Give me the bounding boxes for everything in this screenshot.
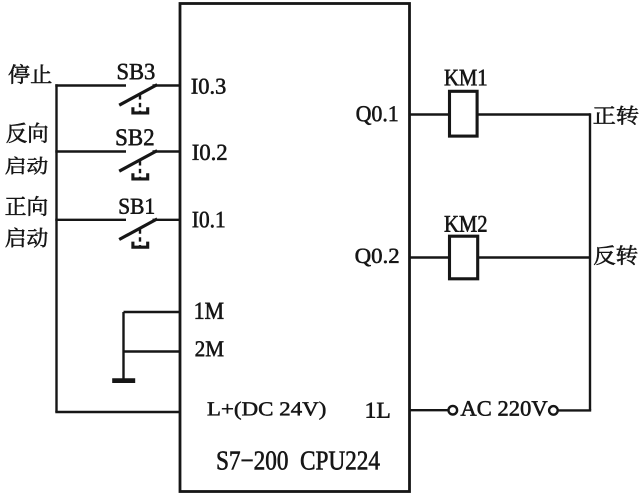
part label: S7-200 CPU224 bbox=[218, 451, 380, 469]
label: reverse (Chinese) line1 for SB2 bbox=[7, 123, 48, 143]
wire: KM1 coil to right bus bbox=[477, 113, 590, 115]
PLC controller U1 box (S7-200 CPU224) bbox=[180, 4, 410, 492]
label: start (Chinese) line2 for SB1 bbox=[6, 228, 48, 248]
designator: SB2 bbox=[117, 129, 154, 145]
designator: KM2 bbox=[445, 216, 487, 232]
pushbutton SB2 (reverse start, NO contact + actuator) bbox=[119, 151, 157, 179]
pushbutton SB3 (stop, NO contact + actuator) bbox=[119, 85, 157, 113]
pin label: 1L bbox=[367, 403, 390, 418]
net label: forward rotation (Chinese) bbox=[594, 106, 639, 125]
pin label: 2M bbox=[196, 341, 224, 356]
wire: 1L pin to AC source bbox=[410, 409, 449, 411]
net label: reverse rotation (Chinese) bbox=[594, 245, 637, 265]
wire: KM2 coil to right bus bbox=[478, 256, 590, 258]
label: start (Chinese) line2 for SB2 bbox=[6, 157, 48, 175]
wire: SB3 row right segment to I0.3 pin bbox=[153, 84, 181, 86]
label: stop (Chinese) for SB3 bbox=[9, 64, 52, 84]
wire: 1M pin segment bbox=[124, 311, 181, 313]
wire: SB1 row left segment bbox=[55, 219, 126, 221]
ground symbol bbox=[112, 378, 135, 383]
wire: SB2 row right segment to I0.2 pin bbox=[153, 150, 181, 152]
contactor coil KM2 bbox=[450, 236, 478, 279]
value label: AC 220V bbox=[461, 401, 548, 416]
contactor coil KM1 bbox=[450, 91, 478, 136]
pin label: I0.1 bbox=[193, 212, 225, 228]
node: AC 220V source terminal right bbox=[549, 406, 558, 415]
wire: AC source to right bus bbox=[558, 409, 592, 411]
designator: KM1 bbox=[445, 70, 487, 86]
designator: SB1 bbox=[120, 199, 154, 214]
wire: bottom segment bus to L+ pin bbox=[55, 411, 180, 413]
wire: SB1 row right segment to I0.1 pin bbox=[153, 219, 181, 221]
pin label: I0.3 bbox=[192, 79, 226, 94]
wire: left vertical supply bus bbox=[55, 84, 57, 412]
designator: SB3 bbox=[118, 64, 154, 80]
wire: Q0.2 pin to KM2 coil bbox=[410, 256, 450, 258]
wire: SB2 row left segment bbox=[55, 150, 126, 152]
pin label: 1M bbox=[196, 303, 224, 319]
pin label: Q0.1 bbox=[357, 106, 398, 125]
wire: right vertical return bus bbox=[589, 113, 591, 410]
wire: 2M pin segment bbox=[124, 350, 181, 352]
wire: Q0.1 pin to KM1 coil bbox=[410, 113, 450, 115]
pushbutton SB1 (forward start, NO contact + actuator) bbox=[119, 219, 157, 247]
pin label: Q0.2 bbox=[356, 249, 399, 267]
pin label: L+ (DC 24V supply) bbox=[208, 402, 326, 420]
wire: ground stem from 1M/2M junction bbox=[122, 312, 124, 379]
label: forward (Chinese) line1 for SB1 bbox=[6, 196, 47, 216]
pin label: I0.2 bbox=[193, 145, 227, 161]
wire: SB3 row left segment bbox=[55, 84, 126, 86]
node: AC 220V source terminal left bbox=[449, 406, 458, 415]
